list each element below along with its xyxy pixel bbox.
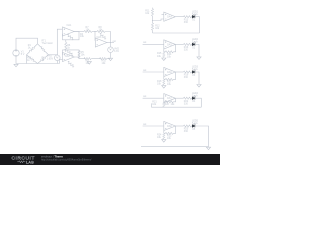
svg-text:LAB: LAB xyxy=(26,160,34,164)
wire node out to OA6 input xyxy=(143,71,164,73)
ground block2 LED xyxy=(197,57,201,60)
wire OA2 feedback loop xyxy=(63,50,80,57)
wire block1 bottom rail xyxy=(153,32,200,34)
node A junction xyxy=(57,54,58,55)
voltmeter VM2 xyxy=(108,47,114,53)
LED D3 xyxy=(192,69,195,73)
wire LED D1 cathode down xyxy=(195,17,199,33)
wire OA7 feedback loop xyxy=(164,98,176,102)
svg-text:OA5: OA5 xyxy=(167,43,172,46)
wire bridge left corner down to rail xyxy=(26,55,28,64)
ground block2 gain xyxy=(162,58,166,61)
logo resistor zigzag xyxy=(17,161,25,163)
resistor diagonal above OA3 xyxy=(99,33,107,40)
wire OA8 feedback loop xyxy=(164,126,176,133)
ground block3 LED xyxy=(197,85,201,88)
svg-text:Thermistor: Thermistor xyxy=(42,42,54,45)
resistor R24 xyxy=(184,125,192,127)
wire OA3 output xyxy=(107,42,114,44)
resistor R19 xyxy=(184,71,192,73)
wire block4 bottom rail xyxy=(151,103,201,107)
node divider junction xyxy=(152,20,153,21)
ground block5 rail xyxy=(206,147,210,150)
svg-text:out: out xyxy=(143,123,147,126)
wire LED D5 cathode to bottom rail xyxy=(195,126,208,147)
svg-text:out: out xyxy=(143,41,147,44)
LED D2 xyxy=(192,42,195,46)
wire bridge right corner to node A xyxy=(49,54,58,56)
wire OA1 output top path xyxy=(74,31,85,33)
svg-text:5 mA: 5 mA xyxy=(192,41,198,44)
svg-text:330: 330 xyxy=(184,130,189,133)
svg-text:5 mA: 5 mA xyxy=(192,13,198,16)
ground block3 gain xyxy=(162,86,166,89)
resistor diagonal below OA2 xyxy=(67,61,75,68)
resistor R14 feedback xyxy=(165,51,173,53)
resistor R21 xyxy=(184,97,192,99)
wire out node down to VM2 xyxy=(110,43,112,47)
svg-text:3.3V: 3.3V xyxy=(114,50,119,53)
bridge: thermistor arm top-right xyxy=(38,44,49,55)
ground G3 xyxy=(87,62,91,65)
bridge: resistor R2 arm bottom-left xyxy=(27,55,38,64)
wire LED D3 cathode down xyxy=(195,72,199,84)
svg-text:5 mA: 5 mA xyxy=(192,68,198,71)
voltage source V1 xyxy=(13,50,19,57)
wire mid top path xyxy=(92,31,97,33)
wire to LED D3 xyxy=(191,71,194,73)
wire VM2 to ground xyxy=(110,53,112,58)
wire OA5 output xyxy=(175,43,183,45)
resistor R8 xyxy=(97,30,105,32)
wire node A up to OA1 + input xyxy=(57,29,62,55)
svg-text:OA2: OA2 xyxy=(65,55,70,58)
bridge: resistor R3 arm bottom-right xyxy=(38,55,49,64)
wire node out to OA7 input xyxy=(143,97,164,99)
bridge: resistor R1 arm top-left xyxy=(27,44,38,55)
node out junction xyxy=(110,42,111,43)
wire OA8 output xyxy=(175,125,183,127)
svg-text:330: 330 xyxy=(184,21,189,24)
resistor R10 xyxy=(100,58,107,60)
resistor R11 divider top xyxy=(152,8,154,21)
resistor diagonal in OA2 loop xyxy=(66,50,74,57)
wire block5 bottom rail xyxy=(141,146,209,148)
svg-text:OA6: OA6 xyxy=(167,71,172,74)
svg-text:330: 330 xyxy=(184,76,189,79)
resistor R13 xyxy=(184,16,192,18)
svg-text:http://circuitlab.com/c/y9934u: http://circuitlab.com/c/y9934umn5m9/ther… xyxy=(41,158,92,162)
wire OA6 output xyxy=(175,71,183,73)
svg-text:R20: R20 xyxy=(165,103,170,106)
op-amp OA6 xyxy=(164,67,176,76)
wire OA5 feedback loop xyxy=(164,44,176,51)
resistor R18 to ground xyxy=(163,79,165,85)
svg-text:OA1: OA1 xyxy=(67,24,72,27)
wire OA6 feedback loop xyxy=(164,72,176,79)
svg-text:OA7: OA7 xyxy=(167,97,172,100)
svg-text:5 mA: 5 mA xyxy=(192,94,198,97)
wire divider to OA4 input xyxy=(153,19,164,21)
wire OA4 output xyxy=(175,16,183,18)
wire OA2 + input riser xyxy=(60,59,63,63)
wire to LED D5 xyxy=(191,125,194,127)
resistor R15 to ground xyxy=(163,52,165,58)
resistor R12 divider bottom xyxy=(152,21,154,34)
resistor R17 feedback xyxy=(165,78,173,80)
wire top path to feedback corner xyxy=(105,32,111,43)
svg-text:330: 330 xyxy=(184,102,189,105)
op-amp OA1 xyxy=(63,27,75,36)
wire node out to OA5 input xyxy=(143,43,164,45)
wire to LED D4 xyxy=(191,97,194,99)
resistor R6 gain vertical xyxy=(65,40,67,52)
op-amp OA8 xyxy=(164,121,176,130)
svg-text:OA8: OA8 xyxy=(167,125,172,128)
ground G2 xyxy=(108,58,112,61)
LED D1 xyxy=(192,14,195,18)
svg-text:OA4: OA4 xyxy=(167,16,172,19)
resistor R5 vertical in OA2 loop xyxy=(78,50,80,58)
resistor R16 xyxy=(184,43,192,45)
op-amp OA7 xyxy=(164,94,176,103)
voltmeter VM1 xyxy=(55,55,61,61)
svg-text:330: 330 xyxy=(184,49,189,52)
wire V1 bottom / ground rail xyxy=(16,56,60,63)
svg-text:5 mA: 5 mA xyxy=(192,122,198,125)
op-amp OA5 xyxy=(164,40,176,49)
LED D4 xyxy=(192,95,195,99)
wire OA4 + stub xyxy=(162,13,164,15)
svg-text:5 V: 5 V xyxy=(21,53,25,56)
wire LED D2 cathode down xyxy=(195,44,199,56)
wire to LED D2 xyxy=(191,43,194,45)
ground G1 xyxy=(14,64,18,67)
op-amp OA2 xyxy=(63,52,75,61)
ground block5 gain xyxy=(162,140,166,143)
wire VM1 to rail xyxy=(56,61,58,64)
wire to LED D1 xyxy=(191,16,194,18)
svg-text:out: out xyxy=(113,40,117,43)
LED D5 xyxy=(192,123,195,127)
resistor R23 to ground xyxy=(163,133,165,139)
node B junction xyxy=(94,31,95,32)
wire node out to OA8 input xyxy=(143,125,164,127)
op-amp OA3 xyxy=(95,38,107,47)
op-amp OA4 xyxy=(164,12,176,21)
resistor R4 diagonal in OA1 loop xyxy=(67,34,75,41)
resistor R7 xyxy=(84,30,92,32)
wire node B down to OA3 - input xyxy=(94,32,96,41)
wire V1 top to bridge top xyxy=(16,38,38,50)
wire lower reference path xyxy=(79,57,111,59)
svg-text:out: out xyxy=(143,69,147,72)
resistor R9 xyxy=(84,58,91,60)
svg-text:OA3: OA3 xyxy=(97,36,102,39)
resistor R22 feedback xyxy=(165,132,173,134)
svg-text:out: out xyxy=(143,95,147,98)
wire OA1 feedback loop xyxy=(63,32,80,40)
svg-text:1.65V: 1.65V xyxy=(47,57,54,60)
resistor R26 to rail xyxy=(163,102,165,107)
resistor R20 feedback xyxy=(165,101,173,103)
wire LED D4 cathode down to rail xyxy=(195,98,201,107)
wire OA7 output xyxy=(175,97,183,99)
